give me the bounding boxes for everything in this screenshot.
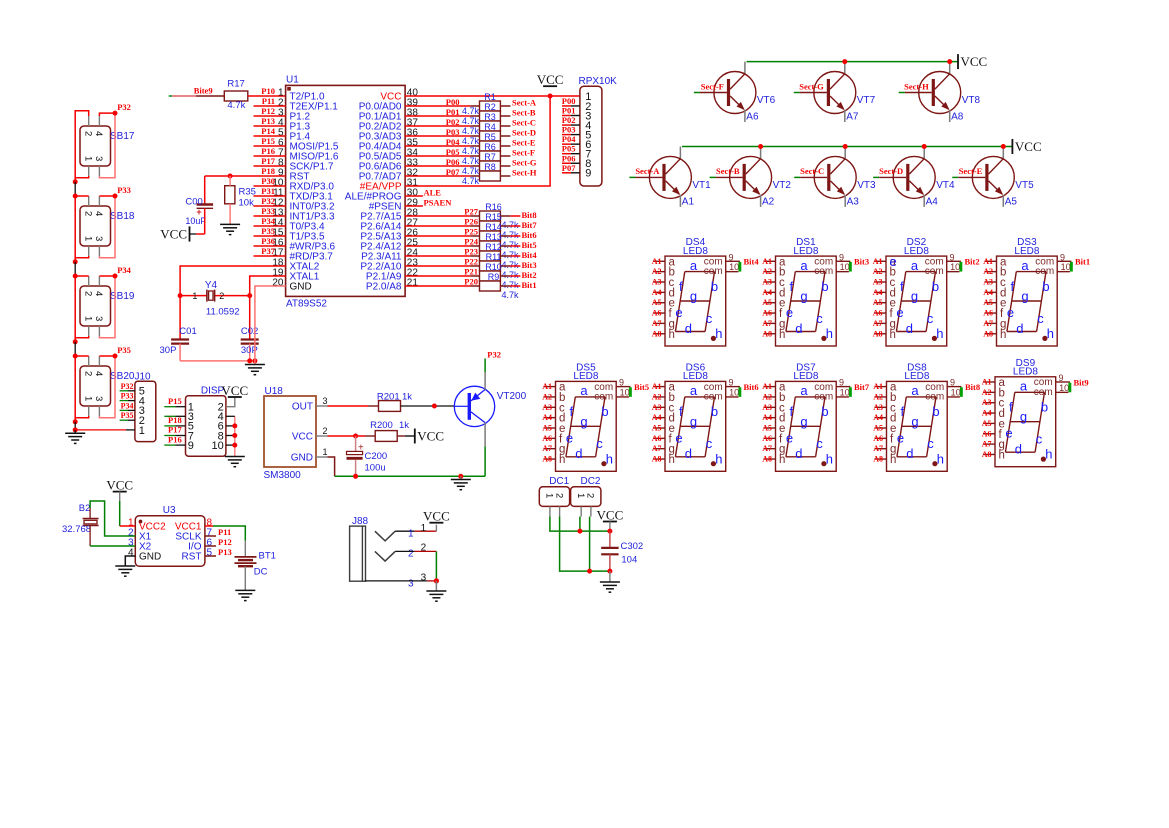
wire — [229, 176, 231, 186]
svg-text:P17: P17 — [168, 425, 182, 435]
wire — [405, 245, 470, 247]
svg-text:P37: P37 — [261, 246, 275, 256]
svg-text:P34: P34 — [117, 265, 131, 275]
junction — [432, 404, 437, 409]
svg-text:LED8: LED8 — [683, 371, 708, 382]
svg-text:g: g — [800, 289, 807, 304]
wire (collector up) — [679, 147, 681, 159]
svg-text:Sect-G: Sect-G — [799, 81, 824, 91]
wire Bite9 — [169, 95, 225, 97]
junction — [1001, 144, 1006, 149]
svg-text:A3: A3 — [652, 403, 662, 412]
crystal Y4 11.0592 — [180, 280, 250, 318]
wire — [254, 215, 286, 217]
junction — [353, 474, 358, 479]
svg-text:VCC: VCC — [417, 429, 444, 444]
svg-text:a: a — [1020, 379, 1028, 394]
wire — [99, 276, 115, 338]
7-segment display DS9 LED8 — [983, 358, 1071, 467]
wire — [74, 342, 76, 356]
svg-text:11.0592: 11.0592 — [206, 307, 240, 318]
IC U3 — [128, 505, 213, 566]
wire — [254, 125, 286, 127]
svg-text:P26: P26 — [464, 217, 478, 227]
svg-text:A5: A5 — [762, 424, 772, 433]
svg-text:J10: J10 — [135, 372, 152, 383]
svg-text:d: d — [1015, 442, 1022, 457]
svg-text:1: 1 — [83, 156, 94, 161]
crystal B2 32.768 — [62, 503, 99, 535]
svg-text:A1: A1 — [873, 382, 883, 391]
wire — [500, 165, 510, 167]
svg-text:A1: A1 — [762, 382, 772, 391]
wire — [500, 105, 510, 107]
svg-text:VT5: VT5 — [1015, 180, 1034, 191]
svg-text:A1: A1 — [682, 196, 695, 207]
svg-text:Bit8: Bit8 — [965, 382, 980, 392]
push button SB20 — [80, 356, 135, 416]
wire — [405, 165, 470, 167]
wire — [405, 215, 470, 217]
wire — [74, 430, 76, 433]
svg-text:Sect-A: Sect-A — [635, 166, 660, 176]
wire (emitter down) — [760, 195, 762, 207]
svg-text:A3: A3 — [873, 278, 883, 287]
svg-text:R3: R3 — [484, 112, 496, 122]
junction — [232, 443, 237, 448]
svg-text:U1: U1 — [286, 75, 299, 86]
svg-text:2: 2 — [585, 493, 596, 498]
svg-text:4.7k: 4.7k — [462, 176, 480, 186]
svg-text:A7: A7 — [652, 444, 662, 453]
svg-text:DC2: DC2 — [580, 476, 600, 487]
svg-text:VT200: VT200 — [497, 391, 527, 402]
svg-text:A4: A4 — [762, 413, 772, 422]
svg-text:10: 10 — [729, 387, 739, 397]
svg-text:100u: 100u — [365, 463, 386, 474]
svg-text:20: 20 — [272, 278, 284, 289]
7-segment display DS3 LED8 — [985, 237, 1073, 346]
svg-text:10: 10 — [1061, 262, 1071, 272]
resistor R10 — [480, 262, 520, 290]
svg-text:d: d — [575, 446, 582, 461]
wire — [75, 356, 89, 422]
svg-text:Sect-B: Sect-B — [716, 166, 740, 176]
svg-text:P2.0/A8: P2.0/A8 — [366, 282, 402, 293]
node P33 — [113, 185, 131, 199]
wire — [254, 255, 286, 257]
svg-text:a: a — [690, 258, 698, 273]
wire — [328, 435, 366, 437]
wire — [99, 113, 115, 116]
wire — [405, 115, 470, 117]
svg-text:R13: R13 — [485, 232, 502, 242]
svg-text:LED8: LED8 — [904, 246, 929, 257]
svg-text:1: 1 — [192, 291, 197, 301]
wire — [397, 435, 405, 437]
svg-text:4.7k: 4.7k — [462, 116, 480, 126]
resistor R6 — [462, 142, 500, 166]
svg-text:4.7k: 4.7k — [462, 146, 480, 156]
svg-text:VCC: VCC — [423, 509, 450, 524]
svg-text:A7: A7 — [982, 440, 992, 449]
svg-text:P10: P10 — [261, 86, 275, 96]
svg-text:P13: P13 — [261, 116, 275, 126]
connector DISP — [164, 386, 226, 457]
svg-text:A1: A1 — [652, 257, 662, 266]
svg-text:32.768: 32.768 — [62, 524, 91, 535]
svg-text:h: h — [606, 451, 613, 466]
svg-text:P02: P02 — [446, 117, 460, 127]
svg-text:Sect-G: Sect-G — [512, 158, 537, 168]
svg-text:C200: C200 — [365, 451, 388, 462]
svg-text:A2: A2 — [652, 267, 662, 276]
svg-text:P27: P27 — [464, 207, 478, 217]
wire — [254, 235, 286, 237]
svg-text:1: 1 — [544, 493, 555, 498]
svg-text:Bit4: Bit4 — [744, 257, 760, 267]
wire (J10 pin1 to button chain) — [75, 429, 126, 431]
wire — [500, 235, 510, 237]
wire (base) — [694, 92, 727, 94]
svg-text:R10: R10 — [485, 262, 502, 272]
svg-text:VCC: VCC — [537, 72, 564, 87]
svg-text:P06: P06 — [446, 157, 460, 167]
wire — [205, 545, 216, 547]
svg-text:h: h — [936, 326, 943, 341]
resistor R35 — [225, 186, 256, 209]
svg-text:1: 1 — [139, 425, 145, 437]
svg-text:R15: R15 — [485, 212, 502, 222]
svg-text:Bite9: Bite9 — [194, 86, 213, 96]
svg-text:P23: P23 — [464, 247, 478, 257]
svg-text:e: e — [786, 430, 793, 445]
svg-text:P32: P32 — [121, 382, 134, 391]
wire — [254, 145, 286, 147]
svg-text:R2: R2 — [484, 102, 496, 112]
svg-text:e: e — [890, 254, 897, 269]
wire — [75, 416, 89, 418]
svg-text:LED8: LED8 — [683, 246, 708, 257]
wire (emitter down) — [679, 195, 681, 207]
svg-text:d: d — [906, 321, 913, 336]
svg-text:4: 4 — [93, 211, 104, 216]
transistor VT6 — [714, 72, 776, 114]
svg-text:h: h — [1047, 326, 1054, 341]
svg-text:A6: A6 — [982, 429, 992, 438]
svg-text:Bit3: Bit3 — [522, 260, 537, 270]
wire — [226, 435, 235, 437]
svg-text:h: h — [715, 451, 722, 466]
IC U18 SM3800 — [264, 386, 328, 481]
svg-text:g: g — [911, 289, 918, 304]
wire — [435, 581, 437, 591]
svg-text:A4: A4 — [983, 288, 993, 297]
wire — [180, 360, 255, 362]
svg-text:SB20: SB20 — [110, 371, 135, 382]
svg-text:P36: P36 — [261, 236, 275, 246]
svg-text:A5: A5 — [1005, 196, 1018, 207]
svg-text:RPX10K: RPX10K — [579, 76, 618, 87]
svg-text:1: 1 — [575, 493, 586, 498]
svg-text:A2: A2 — [873, 267, 883, 276]
svg-text:4.7k: 4.7k — [502, 230, 520, 240]
svg-text:P33: P33 — [121, 392, 134, 401]
svg-text:d: d — [685, 446, 692, 461]
resistor R5 — [462, 132, 500, 156]
wire — [395, 550, 436, 552]
svg-text:3: 3 — [93, 316, 104, 321]
wire — [460, 476, 462, 479]
svg-text:a: a — [911, 258, 919, 273]
svg-text:a: a — [690, 383, 698, 398]
svg-text:R9: R9 — [488, 272, 500, 282]
svg-text:A3: A3 — [542, 403, 552, 412]
svg-text:DC1: DC1 — [549, 476, 569, 487]
svg-text:Sect-A: Sect-A — [512, 98, 537, 108]
wire (VCC rail bottom) — [682, 146, 1012, 148]
svg-text:LED8: LED8 — [904, 371, 929, 382]
7-segment display DS8 LED8 — [875, 363, 963, 472]
VCC power symbol (R200) — [415, 429, 444, 444]
svg-text:e: e — [675, 430, 682, 445]
svg-text:c: c — [1036, 432, 1043, 447]
svg-text:Sect-H: Sect-H — [512, 168, 537, 178]
7-segment display DS2 LED8 — [874, 237, 962, 346]
wire — [120, 492, 136, 526]
svg-text:A7: A7 — [762, 444, 772, 453]
wire — [254, 245, 286, 247]
svg-text:Bit6: Bit6 — [744, 382, 759, 392]
svg-text:A1: A1 — [542, 382, 552, 391]
7-segment display DS6 LED8 — [653, 363, 741, 472]
wire — [99, 196, 115, 258]
IC U1 AT89S52 — [272, 75, 418, 310]
svg-text:P20: P20 — [464, 277, 478, 287]
resistor R1 — [462, 92, 500, 116]
wire — [328, 405, 369, 407]
svg-text:P35: P35 — [117, 345, 131, 355]
svg-text:A5: A5 — [983, 298, 993, 307]
wire — [500, 225, 510, 227]
wire (collector up) — [744, 62, 746, 74]
svg-text:4.7k: 4.7k — [462, 126, 480, 136]
svg-text:Bit7: Bit7 — [854, 382, 870, 392]
wire (emitter down) — [923, 195, 925, 207]
wire — [550, 517, 610, 532]
svg-text:g: g — [1021, 289, 1028, 304]
svg-text:P05: P05 — [446, 147, 460, 157]
svg-text:P18: P18 — [261, 166, 275, 176]
wire — [226, 444, 235, 446]
wire (base) — [794, 92, 827, 94]
svg-text:A6: A6 — [983, 309, 993, 318]
svg-text:2: 2 — [83, 291, 94, 296]
wire — [205, 555, 216, 557]
svg-text:9: 9 — [729, 378, 734, 388]
svg-text:Bit7: Bit7 — [522, 220, 538, 230]
svg-text:R8: R8 — [484, 162, 496, 172]
push button SB17 — [80, 116, 135, 176]
svg-text:P21: P21 — [464, 267, 478, 277]
wire — [435, 551, 437, 581]
svg-text:104: 104 — [621, 554, 637, 565]
svg-text:c: c — [816, 436, 823, 451]
svg-text:h: h — [779, 454, 785, 466]
wire — [609, 571, 611, 582]
svg-text:A5: A5 — [652, 424, 662, 433]
svg-text:a: a — [800, 258, 808, 273]
junction — [758, 144, 763, 149]
svg-text:f: f — [900, 279, 904, 294]
capacitor C302 — [601, 531, 643, 571]
svg-text:21: 21 — [407, 278, 419, 289]
battery BT1 — [235, 551, 276, 578]
svg-text:P01: P01 — [446, 107, 460, 117]
wire — [500, 245, 510, 247]
svg-text:A1: A1 — [982, 378, 992, 387]
svg-text:A5: A5 — [762, 298, 772, 307]
svg-text:g: g — [580, 414, 587, 429]
svg-text:2: 2 — [553, 493, 564, 498]
junction — [922, 144, 927, 149]
svg-text:R7: R7 — [484, 152, 496, 162]
svg-text:g: g — [911, 414, 918, 429]
svg-text:10k: 10k — [239, 198, 255, 209]
svg-text:Bit9: Bit9 — [1074, 377, 1089, 387]
svg-text:9: 9 — [1059, 373, 1064, 383]
wire — [234, 416, 236, 456]
svg-text:P33: P33 — [117, 185, 131, 195]
svg-text:Sect-F: Sect-F — [701, 81, 724, 91]
svg-text:1: 1 — [323, 447, 328, 457]
junction — [947, 59, 952, 64]
node P34 — [113, 265, 132, 279]
svg-text:VCC: VCC — [106, 478, 133, 493]
svg-text:f: f — [790, 404, 794, 419]
wire — [74, 422, 76, 430]
ground (DC) — [600, 582, 620, 592]
svg-text:A4: A4 — [652, 288, 662, 297]
wire (B2 to X2) — [90, 526, 135, 547]
svg-text:A5: A5 — [873, 424, 883, 433]
wire — [405, 275, 470, 277]
resistor R15 — [480, 212, 520, 240]
svg-text:b: b — [711, 279, 718, 294]
svg-text:c: c — [706, 436, 713, 451]
svg-text:LED8: LED8 — [1014, 246, 1039, 257]
VCC power symbol (U3) — [106, 478, 133, 493]
svg-text:VCC: VCC — [292, 432, 313, 443]
svg-text:A6: A6 — [762, 309, 772, 318]
resistor R13 — [480, 232, 520, 260]
svg-text:P13: P13 — [218, 547, 232, 557]
svg-text:BT1: BT1 — [259, 551, 276, 562]
svg-text:A8: A8 — [542, 455, 552, 464]
wire — [226, 415, 235, 417]
wire — [99, 113, 115, 178]
svg-text:GND: GND — [291, 453, 313, 464]
svg-text:R17: R17 — [227, 79, 244, 90]
svg-text:P30: P30 — [261, 176, 275, 186]
wire — [405, 265, 470, 267]
wire (collector up) — [844, 62, 846, 74]
svg-text:Bit2: Bit2 — [522, 270, 537, 280]
svg-text:P16: P16 — [261, 146, 275, 156]
svg-text:A2: A2 — [652, 392, 662, 401]
svg-text:LED8: LED8 — [573, 371, 598, 382]
junction — [434, 578, 439, 583]
svg-text:A4: A4 — [926, 196, 939, 207]
svg-text:A6: A6 — [873, 434, 883, 443]
svg-text:A2: A2 — [873, 392, 883, 401]
junction — [73, 179, 78, 184]
wire — [500, 175, 510, 177]
svg-text:P12: P12 — [218, 537, 232, 547]
svg-text:c: c — [706, 311, 713, 326]
push button SB18 — [80, 196, 135, 256]
jack contact pin 1 — [375, 531, 395, 541]
svg-text:A1: A1 — [762, 257, 772, 266]
svg-text:a: a — [580, 383, 588, 398]
svg-text:3: 3 — [421, 572, 427, 583]
wire — [244, 566, 246, 590]
svg-text:P04: P04 — [446, 137, 460, 147]
svg-text:P03: P03 — [562, 125, 576, 135]
transistor VT3 — [814, 156, 876, 198]
svg-text:P34: P34 — [121, 401, 134, 410]
svg-text:C302: C302 — [621, 541, 644, 552]
svg-text:Bit3: Bit3 — [854, 257, 869, 267]
svg-text:10: 10 — [729, 262, 739, 272]
wire — [254, 175, 286, 177]
svg-text:OUT: OUT — [292, 402, 313, 413]
wire (GND pin20) — [255, 286, 286, 361]
wire — [405, 105, 470, 107]
resistor R2 — [462, 102, 500, 126]
wire — [254, 155, 286, 157]
svg-text:P05: P05 — [562, 144, 576, 154]
wire — [99, 356, 115, 418]
svg-text:A7: A7 — [846, 112, 859, 123]
svg-text:A4: A4 — [762, 288, 772, 297]
svg-text:C02: C02 — [241, 326, 258, 337]
7-segment display DS5 LED8 — [544, 363, 632, 472]
svg-text:b: b — [1042, 279, 1049, 294]
resistor R8 — [462, 162, 500, 186]
junction — [73, 194, 78, 199]
ground (crystal) — [245, 365, 265, 375]
svg-text:P12: P12 — [261, 106, 275, 116]
junction — [232, 423, 237, 428]
wire (emitter) — [484, 423, 486, 477]
svg-text:B2: B2 — [79, 503, 91, 514]
svg-text:h: h — [826, 326, 833, 341]
wire (base) — [873, 176, 906, 178]
wire — [395, 525, 436, 532]
junction — [73, 259, 78, 264]
svg-text:b: b — [932, 279, 939, 294]
svg-text:J88: J88 — [352, 516, 369, 527]
VCC power symbol (VT1-5) — [1012, 139, 1041, 154]
svg-text:A1: A1 — [652, 382, 662, 391]
wire — [75, 111, 89, 182]
svg-text:P01: P01 — [562, 106, 576, 116]
svg-text:A4: A4 — [542, 413, 552, 422]
svg-text:4.7k: 4.7k — [502, 270, 520, 280]
transistor VT1 — [649, 156, 711, 198]
svg-text:R35: R35 — [239, 187, 256, 198]
